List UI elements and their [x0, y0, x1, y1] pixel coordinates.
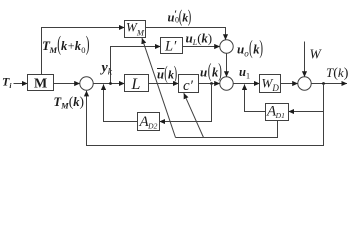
svg-text:): )	[218, 61, 222, 82]
wire disturbance W down into summing junction S3	[304, 42, 306, 77]
wire branch from u(k) node down then left into A_D2 input	[160, 84, 212, 122]
wire adaptation bus continues left	[176, 137, 204, 139]
wire adaptation diagonal up into W_M bottom	[142, 38, 176, 137]
wire from A_D1 bottom down to adaptation bus	[204, 121, 278, 138]
block L'	[161, 38, 183, 54]
svg-text:uL(k): uL(k)	[186, 31, 213, 48]
svg-text:(: (	[208, 61, 212, 82]
label u-bar(k) overbar	[157, 68, 165, 70]
svg-text:): )	[86, 32, 90, 56]
svg-text:M: M	[49, 45, 58, 55]
wire A_D1 output left then up joining u_1 wire	[245, 84, 266, 111]
block A_D2	[138, 113, 160, 131]
label u(k)	[200, 61, 222, 82]
block W_D	[260, 75, 281, 93]
node u(k) junction dot	[210, 82, 213, 85]
wire junction S4 down into summing junction S2	[226, 53, 228, 77]
svg-text:+: +	[68, 39, 75, 53]
wire W_D output into summing junction S3	[281, 83, 298, 85]
wire L' output u_L(k) into junction S4	[183, 46, 220, 48]
svg-text:): )	[188, 7, 192, 27]
svg-text:M: M	[34, 77, 47, 92]
summing junction S1	[80, 77, 93, 90]
svg-text:T(k): T(k)	[326, 65, 349, 81]
svg-text:u1: u1	[239, 65, 250, 81]
svg-text:W: W	[310, 47, 323, 62]
block W_M	[125, 21, 146, 38]
svg-text:Ti: Ti	[2, 75, 12, 91]
node T(k) junction dot	[322, 82, 325, 85]
svg-text:c′: c′	[183, 78, 194, 94]
label u-bar(k)	[157, 64, 177, 84]
wire feedback from T(k) node down along bottom and up into S1	[87, 84, 324, 146]
wire S2 output u_1 into block W_D	[233, 83, 259, 85]
svg-text:u: u	[200, 65, 207, 80]
wire W_M output u'_0(k) right then down into junction S4	[146, 28, 226, 40]
block A_D1	[266, 104, 289, 121]
svg-text:u: u	[237, 42, 244, 57]
wire L output u-bar(k) into block c'	[149, 83, 179, 85]
svg-text:TM(k): TM(k)	[54, 94, 84, 111]
wire branch from M top up and right into W_M input T_M(k+k_0)	[42, 28, 125, 75]
svg-text:): )	[174, 64, 177, 84]
wire c' output u(k) into summing junction S2	[199, 83, 220, 85]
node y_k junction dot	[109, 82, 112, 85]
summing junction S2	[220, 77, 233, 90]
wire feedback from T(k) node down then left into A_D1 input	[289, 84, 324, 112]
svg-text:(: (	[249, 38, 253, 59]
svg-text:L′: L′	[164, 39, 177, 55]
label u_o(k)	[237, 38, 263, 59]
block M	[28, 75, 54, 91]
junction S4 u_o node	[220, 40, 233, 53]
label u'_0(k)	[168, 7, 192, 27]
label T_M(k+k_0)	[42, 32, 90, 56]
wire S1 output y_k to block L	[93, 83, 124, 85]
svg-text:): )	[259, 38, 263, 59]
svg-text:L: L	[131, 76, 141, 93]
wire branch from y_k node up to L' input	[111, 47, 161, 84]
summing junction S3	[298, 77, 311, 90]
wire T_i input into M	[14, 83, 28, 85]
block L	[125, 75, 149, 92]
svg-text:u: u	[157, 68, 164, 82]
wire M output to summing junction S1	[54, 83, 80, 85]
wire S3 output T(k) to right edge	[311, 83, 347, 85]
wire adaptation diagonal up into c' bottom	[184, 93, 204, 137]
block c'	[179, 75, 199, 93]
wire A_D2 output left then up joining y_k wire	[104, 84, 138, 121]
